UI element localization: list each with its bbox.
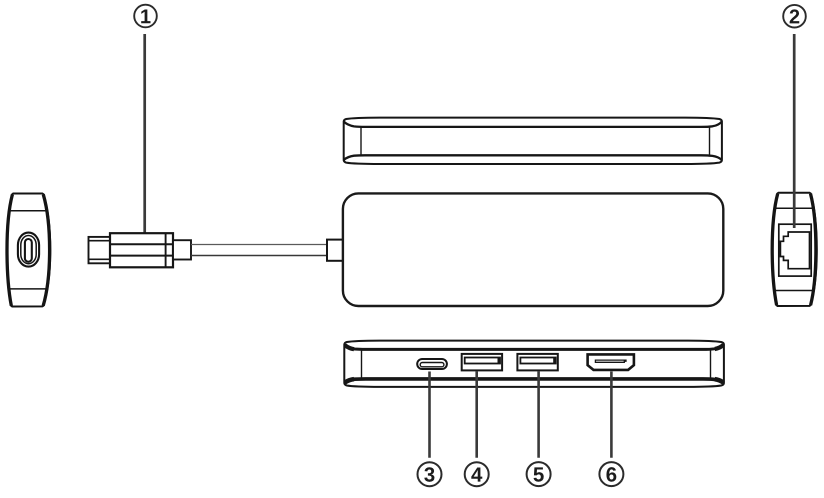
callout line 3 <box>428 372 431 458</box>
left end cap (usb-c female view) <box>7 194 50 307</box>
usb-c plug body <box>110 233 173 267</box>
callout line 2 <box>793 34 796 228</box>
hub bottom-side profile (ports face) <box>344 341 724 387</box>
callout circle 5 <box>527 462 551 486</box>
callout circle 2 <box>783 5 806 28</box>
callout line 4 <box>475 372 478 458</box>
callout line 6 <box>610 372 613 458</box>
callout line 5 <box>537 372 540 458</box>
usb-c receptacle oval <box>18 233 39 267</box>
port 5: usb-a port <box>517 354 557 371</box>
rj45 jack inner with clip <box>780 232 809 269</box>
hub main body (top view) <box>343 193 723 306</box>
port 4: usb-a port <box>462 354 502 371</box>
callout line 1 <box>143 34 146 234</box>
cable stub at hub body <box>327 240 345 261</box>
cable wire <box>191 245 327 256</box>
callout circle 1 <box>134 5 157 28</box>
callout circle 4 <box>465 462 489 486</box>
port 3: usb-c port <box>417 359 447 369</box>
right end cap (ethernet view) <box>772 193 817 306</box>
hub top-side profile <box>344 118 722 164</box>
callout circle 3 <box>418 462 442 486</box>
rj45 jack outer <box>779 224 811 276</box>
callout circle 6 <box>599 462 623 486</box>
usb-c plug neck <box>173 240 191 259</box>
usb-c plug tip <box>89 237 111 263</box>
port 6: hdmi port <box>588 354 634 370</box>
